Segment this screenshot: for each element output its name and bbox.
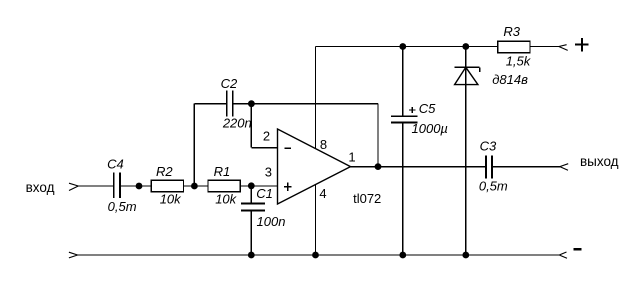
- svg-text:R1: R1: [214, 164, 231, 179]
- wire C3 to output terminal: [493, 166, 560, 168]
- zener diode VD1 (д814в): [455, 67, 480, 84]
- node zener top junction dot: [462, 43, 469, 50]
- node B (feedback tap junction dot): [191, 183, 198, 190]
- terminal output (выход): [560, 164, 568, 171]
- node C5 top junction dot: [399, 43, 406, 50]
- zener diode VD1 wire top: [465, 47, 467, 85]
- capacitor C2: [227, 91, 233, 117]
- node OUT (output/feedback junction dot): [375, 163, 382, 170]
- svg-text:8: 8: [320, 137, 327, 152]
- terminal + supply: [559, 45, 568, 51]
- wire feedback vertical right: [377, 104, 379, 167]
- op-amp U1 triangle: [278, 129, 351, 204]
- wire pin2 horizontal: [251, 147, 277, 149]
- svg-text:R2: R2: [156, 164, 173, 179]
- capacitor C1 wire bottom: [250, 211, 252, 255]
- svg-text:3: 3: [265, 164, 272, 179]
- svg-text:220n: 220n: [222, 115, 252, 130]
- wire pin 4 vertical: [315, 185, 317, 255]
- node pin4 bottom junction dot: [312, 252, 319, 259]
- op-amp non-inverting input plus symbol: [284, 183, 292, 191]
- capacitor C1 wire top: [250, 186, 252, 203]
- wire pin2 vertical: [250, 104, 252, 148]
- terminal bottom-right (- supply): [559, 252, 567, 258]
- svg-text:выход: выход: [580, 154, 619, 169]
- resistor R3: [498, 41, 530, 53]
- svg-text:C4: C4: [107, 156, 124, 171]
- capacitor C5: [391, 116, 418, 122]
- capacitor C3: [486, 155, 492, 178]
- minus sign (- supply): [574, 248, 582, 251]
- terminal bottom-left: [69, 252, 78, 258]
- node A (C4/R2 junction dot): [136, 183, 143, 190]
- plus sign (+ supply): [575, 38, 589, 52]
- node zener bottom junction dot: [462, 252, 469, 259]
- svg-text:4: 4: [319, 186, 326, 201]
- zener diode VD1 wire bottom: [465, 85, 467, 255]
- wire top rail (+ supply): [316, 46, 559, 48]
- wire op-amp output to C3: [351, 166, 486, 168]
- wire feedback vertical left: [193, 104, 195, 186]
- node D (pin2 tap junction dot): [248, 100, 255, 107]
- svg-text:1000µ: 1000µ: [412, 121, 448, 136]
- wire input terminal to C4: [78, 185, 113, 187]
- svg-text:tl072: tl072: [353, 191, 381, 206]
- op-amp inverting input minus symbol: [284, 147, 291, 149]
- svg-text:100n: 100n: [257, 214, 286, 229]
- svg-text:2: 2: [263, 128, 270, 143]
- wire C4 to R2: [121, 185, 151, 187]
- capacitor C1: [241, 204, 265, 211]
- svg-text:C3: C3: [480, 139, 497, 154]
- wire pin 8 vertical: [315, 47, 317, 149]
- wire bottom rail: [77, 254, 559, 256]
- svg-text:C5: C5: [419, 101, 436, 116]
- capacitor C4: [114, 173, 120, 199]
- node C (pin3 / C1 junction dot): [248, 182, 255, 189]
- svg-text:C2: C2: [221, 76, 238, 91]
- svg-text:1,5k: 1,5k: [506, 54, 532, 69]
- capacitor C5 wire top: [402, 47, 404, 116]
- wire feedback top left segment: [194, 103, 226, 105]
- svg-text:1: 1: [348, 149, 355, 164]
- resistor R2: [151, 180, 183, 192]
- svg-text:10k: 10k: [160, 191, 182, 206]
- svg-text:C1: C1: [256, 186, 273, 201]
- terminal input (вход): [69, 183, 78, 190]
- wire C2 to feedback right corner: [234, 103, 379, 105]
- svg-text:д814в: д814в: [492, 72, 528, 87]
- plus polarity mark C5: [409, 107, 415, 113]
- wire R1 to op-amp pin 3: [240, 185, 277, 187]
- wire R2 to R1: [184, 185, 209, 187]
- svg-text:R3: R3: [503, 24, 520, 39]
- svg-text:0,5m: 0,5m: [479, 178, 508, 193]
- node C5 bottom junction dot: [399, 252, 406, 259]
- capacitor C5 wire bottom: [402, 123, 404, 255]
- svg-text:0,5m: 0,5m: [108, 199, 137, 214]
- resistor R1: [208, 180, 240, 192]
- svg-text:10k: 10k: [215, 191, 237, 206]
- svg-text:вход: вход: [26, 180, 55, 195]
- node C1 bottom junction dot: [248, 252, 255, 259]
